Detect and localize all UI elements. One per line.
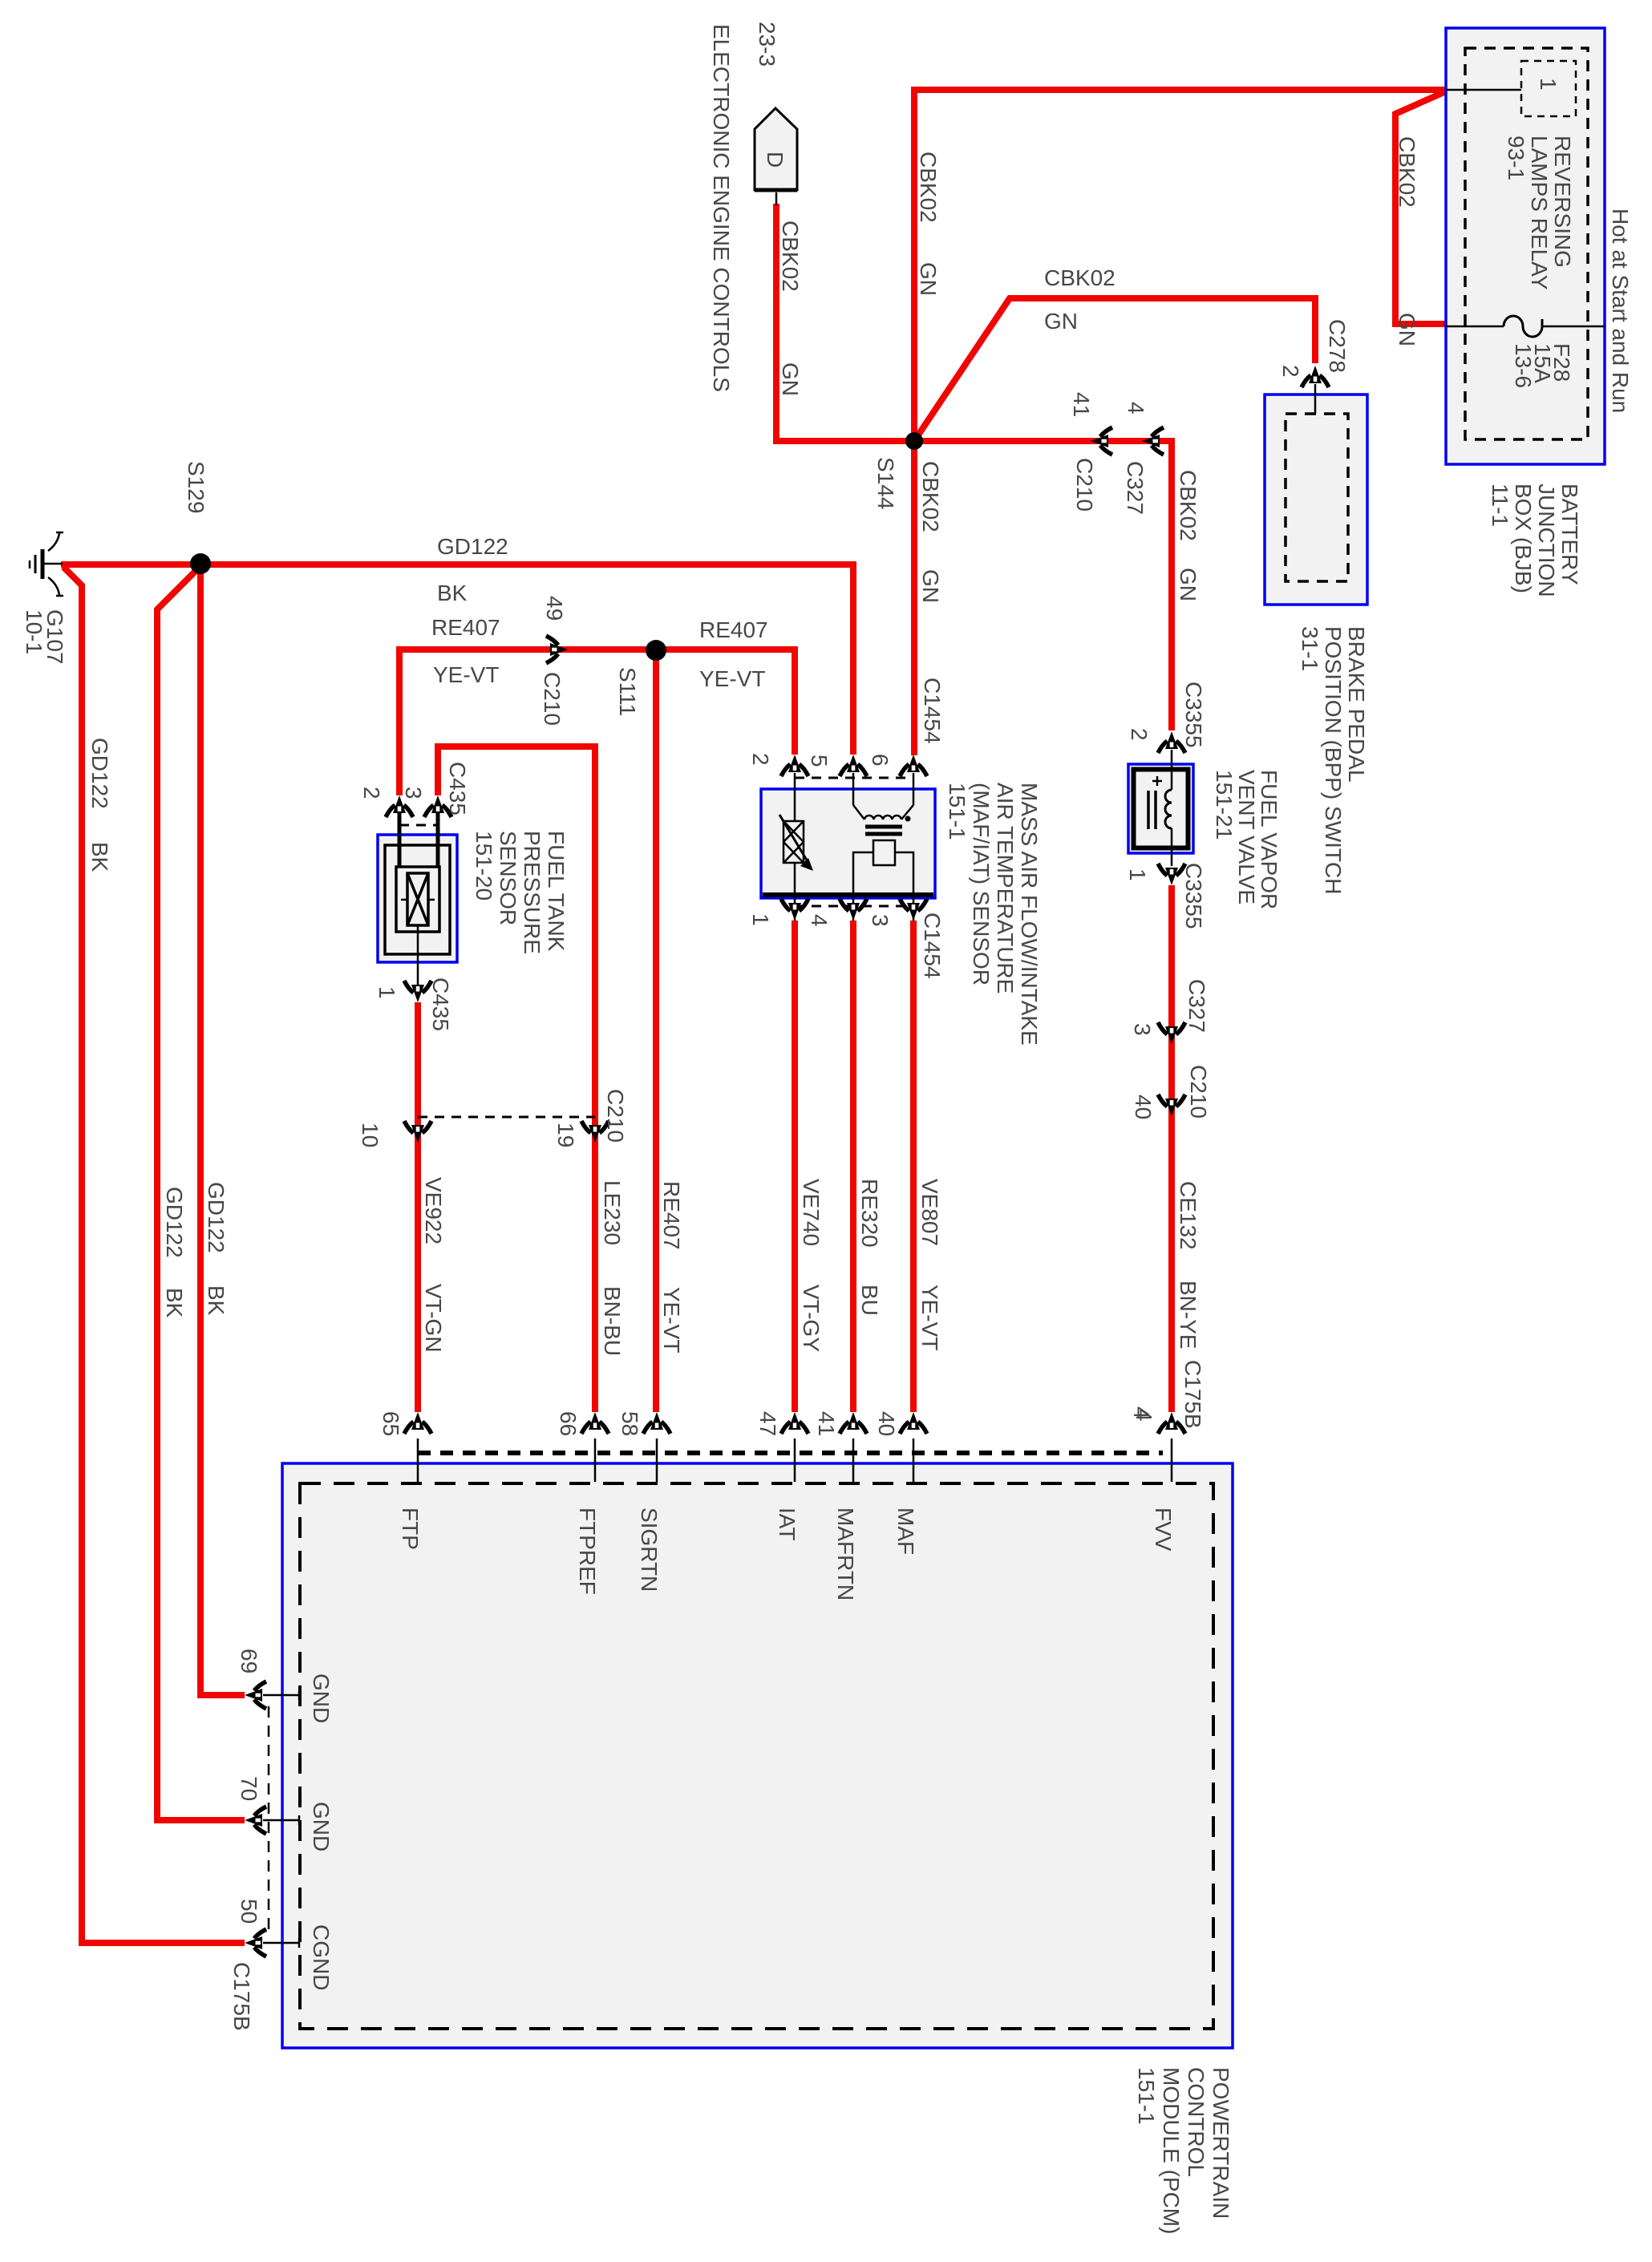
svg-text:PRESSURE: PRESSURE [520, 831, 545, 954]
svg-text:C278: C278 [1325, 319, 1350, 373]
svg-text:CBK02: CBK02 [1395, 136, 1419, 208]
svg-text:REVERSING: REVERSING [1550, 136, 1575, 268]
svg-text:BK: BK [162, 1288, 187, 1318]
svg-text:BN-BU: BN-BU [600, 1286, 625, 1356]
svg-text:RE407: RE407 [659, 1181, 684, 1250]
svg-text:IAT: IAT [775, 1507, 800, 1540]
svg-text:4: 4 [807, 914, 832, 927]
svg-text:6: 6 [868, 754, 893, 767]
svg-text:Hot at Start and Run: Hot at Start and Run [1608, 208, 1633, 413]
svg-text:C175B: C175B [229, 1962, 254, 2031]
svg-text:23-3: 23-3 [755, 22, 779, 67]
svg-text:CBK02: CBK02 [1044, 265, 1116, 290]
svg-text:FTPREF: FTPREF [575, 1507, 600, 1595]
svg-text:GD122: GD122 [87, 738, 112, 809]
svg-text:MASS AIR FLOW/INTAKE: MASS AIR FLOW/INTAKE [1017, 783, 1042, 1046]
svg-text:69: 69 [237, 1649, 261, 1673]
svg-text:FUEL VAPOR: FUEL VAPOR [1257, 770, 1282, 909]
svg-text:VE922: VE922 [421, 1177, 446, 1244]
svg-text:BOX (BJB): BOX (BJB) [1511, 484, 1536, 593]
svg-text:10: 10 [358, 1123, 383, 1147]
svg-text:CE132: CE132 [1176, 1181, 1201, 1250]
svg-text:CBK02: CBK02 [778, 221, 803, 292]
svg-text:GD122: GD122 [162, 1187, 187, 1258]
svg-text:2: 2 [748, 753, 773, 766]
svg-text:40: 40 [874, 1411, 899, 1436]
svg-text:C327: C327 [1123, 461, 1148, 515]
svg-text:49: 49 [542, 596, 567, 621]
svg-text:CBK02: CBK02 [916, 152, 941, 223]
svg-text:C210: C210 [1186, 1065, 1211, 1119]
svg-text:GN: GN [778, 362, 803, 396]
svg-text:GND: GND [309, 1802, 334, 1851]
svg-text:4: 4 [1132, 1409, 1156, 1422]
svg-text:YE-VT: YE-VT [699, 666, 765, 691]
svg-text:19: 19 [553, 1123, 578, 1147]
svg-text:FUEL TANK: FUEL TANK [544, 831, 569, 952]
svg-text:BU: BU [857, 1285, 882, 1316]
svg-text:C210: C210 [603, 1089, 628, 1143]
svg-text:C1454: C1454 [920, 678, 945, 744]
svg-text:13-6: 13-6 [1511, 343, 1536, 388]
svg-text:41: 41 [1069, 392, 1094, 417]
svg-text:RE320: RE320 [857, 1179, 882, 1248]
svg-text:MAF: MAF [893, 1507, 918, 1555]
svg-text:GD122: GD122 [204, 1182, 229, 1253]
svg-text:GN: GN [918, 569, 943, 603]
svg-text:C1454: C1454 [920, 912, 945, 979]
svg-text:151-1: 151-1 [1134, 2067, 1159, 2125]
svg-text:BK: BK [204, 1285, 229, 1316]
svg-text:VT-GN: VT-GN [421, 1284, 446, 1353]
svg-text:151-21: 151-21 [1212, 770, 1237, 840]
svg-text:1: 1 [748, 913, 773, 926]
svg-text:GN: GN [1176, 568, 1201, 601]
svg-text:C175B: C175B [1180, 1360, 1205, 1429]
svg-text:BK: BK [437, 581, 468, 605]
svg-text:YE-VT: YE-VT [433, 662, 499, 687]
svg-text:S129: S129 [184, 461, 209, 513]
svg-text:C435: C435 [428, 977, 453, 1031]
svg-text:ELECTRONIC ENGINE CONTROLS: ELECTRONIC ENGINE CONTROLS [709, 24, 734, 392]
svg-text:BK: BK [87, 842, 112, 872]
svg-text:1: 1 [375, 986, 399, 999]
svg-text:BN-YE: BN-YE [1176, 1281, 1201, 1350]
svg-text:151-1: 151-1 [945, 783, 970, 840]
svg-text:(MAF/IAT) SENSOR: (MAF/IAT) SENSOR [969, 783, 994, 985]
svg-text:3: 3 [868, 914, 893, 927]
svg-text:SIGRTN: SIGRTN [637, 1507, 662, 1592]
svg-text:POWERTRAIN: POWERTRAIN [1209, 2067, 1233, 2219]
svg-text:LE230: LE230 [600, 1180, 625, 1245]
svg-text:93-1: 93-1 [1504, 136, 1529, 180]
svg-text:5: 5 [807, 755, 832, 767]
svg-text:YE-VT: YE-VT [917, 1285, 942, 1350]
svg-text:2: 2 [1278, 365, 1303, 378]
svg-text:4: 4 [1124, 402, 1148, 415]
svg-text:VT-GY: VT-GY [799, 1285, 824, 1352]
svg-text:3: 3 [1130, 1023, 1155, 1036]
svg-text:40: 40 [1131, 1095, 1156, 1119]
svg-text:BATTERY: BATTERY [1557, 484, 1582, 585]
svg-text:C3355: C3355 [1181, 682, 1206, 748]
svg-text:3: 3 [401, 787, 426, 799]
svg-text:11-1: 11-1 [1488, 484, 1512, 527]
svg-text:C435: C435 [445, 762, 470, 815]
svg-text:C210: C210 [1072, 458, 1097, 512]
svg-text:CONTROL: CONTROL [1184, 2067, 1209, 2177]
svg-text:C327: C327 [1184, 979, 1209, 1033]
svg-text:FTP: FTP [398, 1507, 423, 1550]
svg-text:10-1: 10-1 [22, 609, 47, 654]
svg-text:66: 66 [556, 1411, 581, 1436]
svg-text:LAMPS RELAY: LAMPS RELAY [1527, 136, 1552, 290]
svg-text:2: 2 [1127, 728, 1152, 741]
svg-text:41: 41 [814, 1411, 839, 1436]
svg-text:CGND: CGND [309, 1924, 334, 1990]
svg-text:SENSOR: SENSOR [496, 831, 520, 925]
svg-text:S144: S144 [873, 457, 898, 509]
svg-text:GN: GN [1044, 309, 1078, 334]
svg-text:47: 47 [755, 1411, 780, 1436]
svg-text:50: 50 [237, 1899, 261, 1924]
svg-text:JUNCTION: JUNCTION [1534, 484, 1559, 597]
svg-text:GN: GN [1395, 313, 1419, 346]
svg-text:MODULE (PCM): MODULE (PCM) [1159, 2067, 1184, 2234]
svg-text:1: 1 [1536, 78, 1561, 91]
svg-text:C210: C210 [540, 672, 565, 726]
svg-text:2: 2 [359, 787, 384, 799]
svg-text:1: 1 [1125, 868, 1150, 881]
svg-text:31-1: 31-1 [1298, 626, 1322, 671]
svg-text:BRAKE PEDAL: BRAKE PEDAL [1344, 626, 1369, 783]
svg-text:151-20: 151-20 [472, 831, 496, 900]
svg-text:POSITION (BPP) SWITCH: POSITION (BPP) SWITCH [1321, 626, 1346, 894]
svg-text:S111: S111 [615, 667, 640, 716]
svg-text:CBK02: CBK02 [918, 461, 943, 532]
svg-text:D: D [763, 152, 788, 168]
svg-text:YE-VT: YE-VT [659, 1287, 684, 1353]
svg-text:RE407: RE407 [431, 615, 500, 640]
svg-text:58: 58 [617, 1411, 642, 1436]
svg-text:CBK02: CBK02 [1176, 470, 1201, 541]
svg-text:VE807: VE807 [917, 1179, 942, 1246]
svg-text:FVV: FVV [1151, 1507, 1176, 1552]
svg-text:GN: GN [916, 262, 941, 296]
svg-text:MAFRTN: MAFRTN [833, 1507, 858, 1600]
svg-text:RE407: RE407 [699, 617, 768, 642]
svg-text:AIR TEMPERATURE: AIR TEMPERATURE [993, 783, 1018, 993]
svg-text:GD122: GD122 [437, 534, 508, 559]
svg-text:VENT VALVE: VENT VALVE [1234, 770, 1259, 904]
svg-text:65: 65 [379, 1411, 403, 1436]
svg-text:GND: GND [309, 1673, 334, 1723]
svg-text:VE740: VE740 [799, 1179, 824, 1246]
svg-text:C3355: C3355 [1181, 863, 1206, 929]
svg-text:70: 70 [237, 1776, 261, 1801]
